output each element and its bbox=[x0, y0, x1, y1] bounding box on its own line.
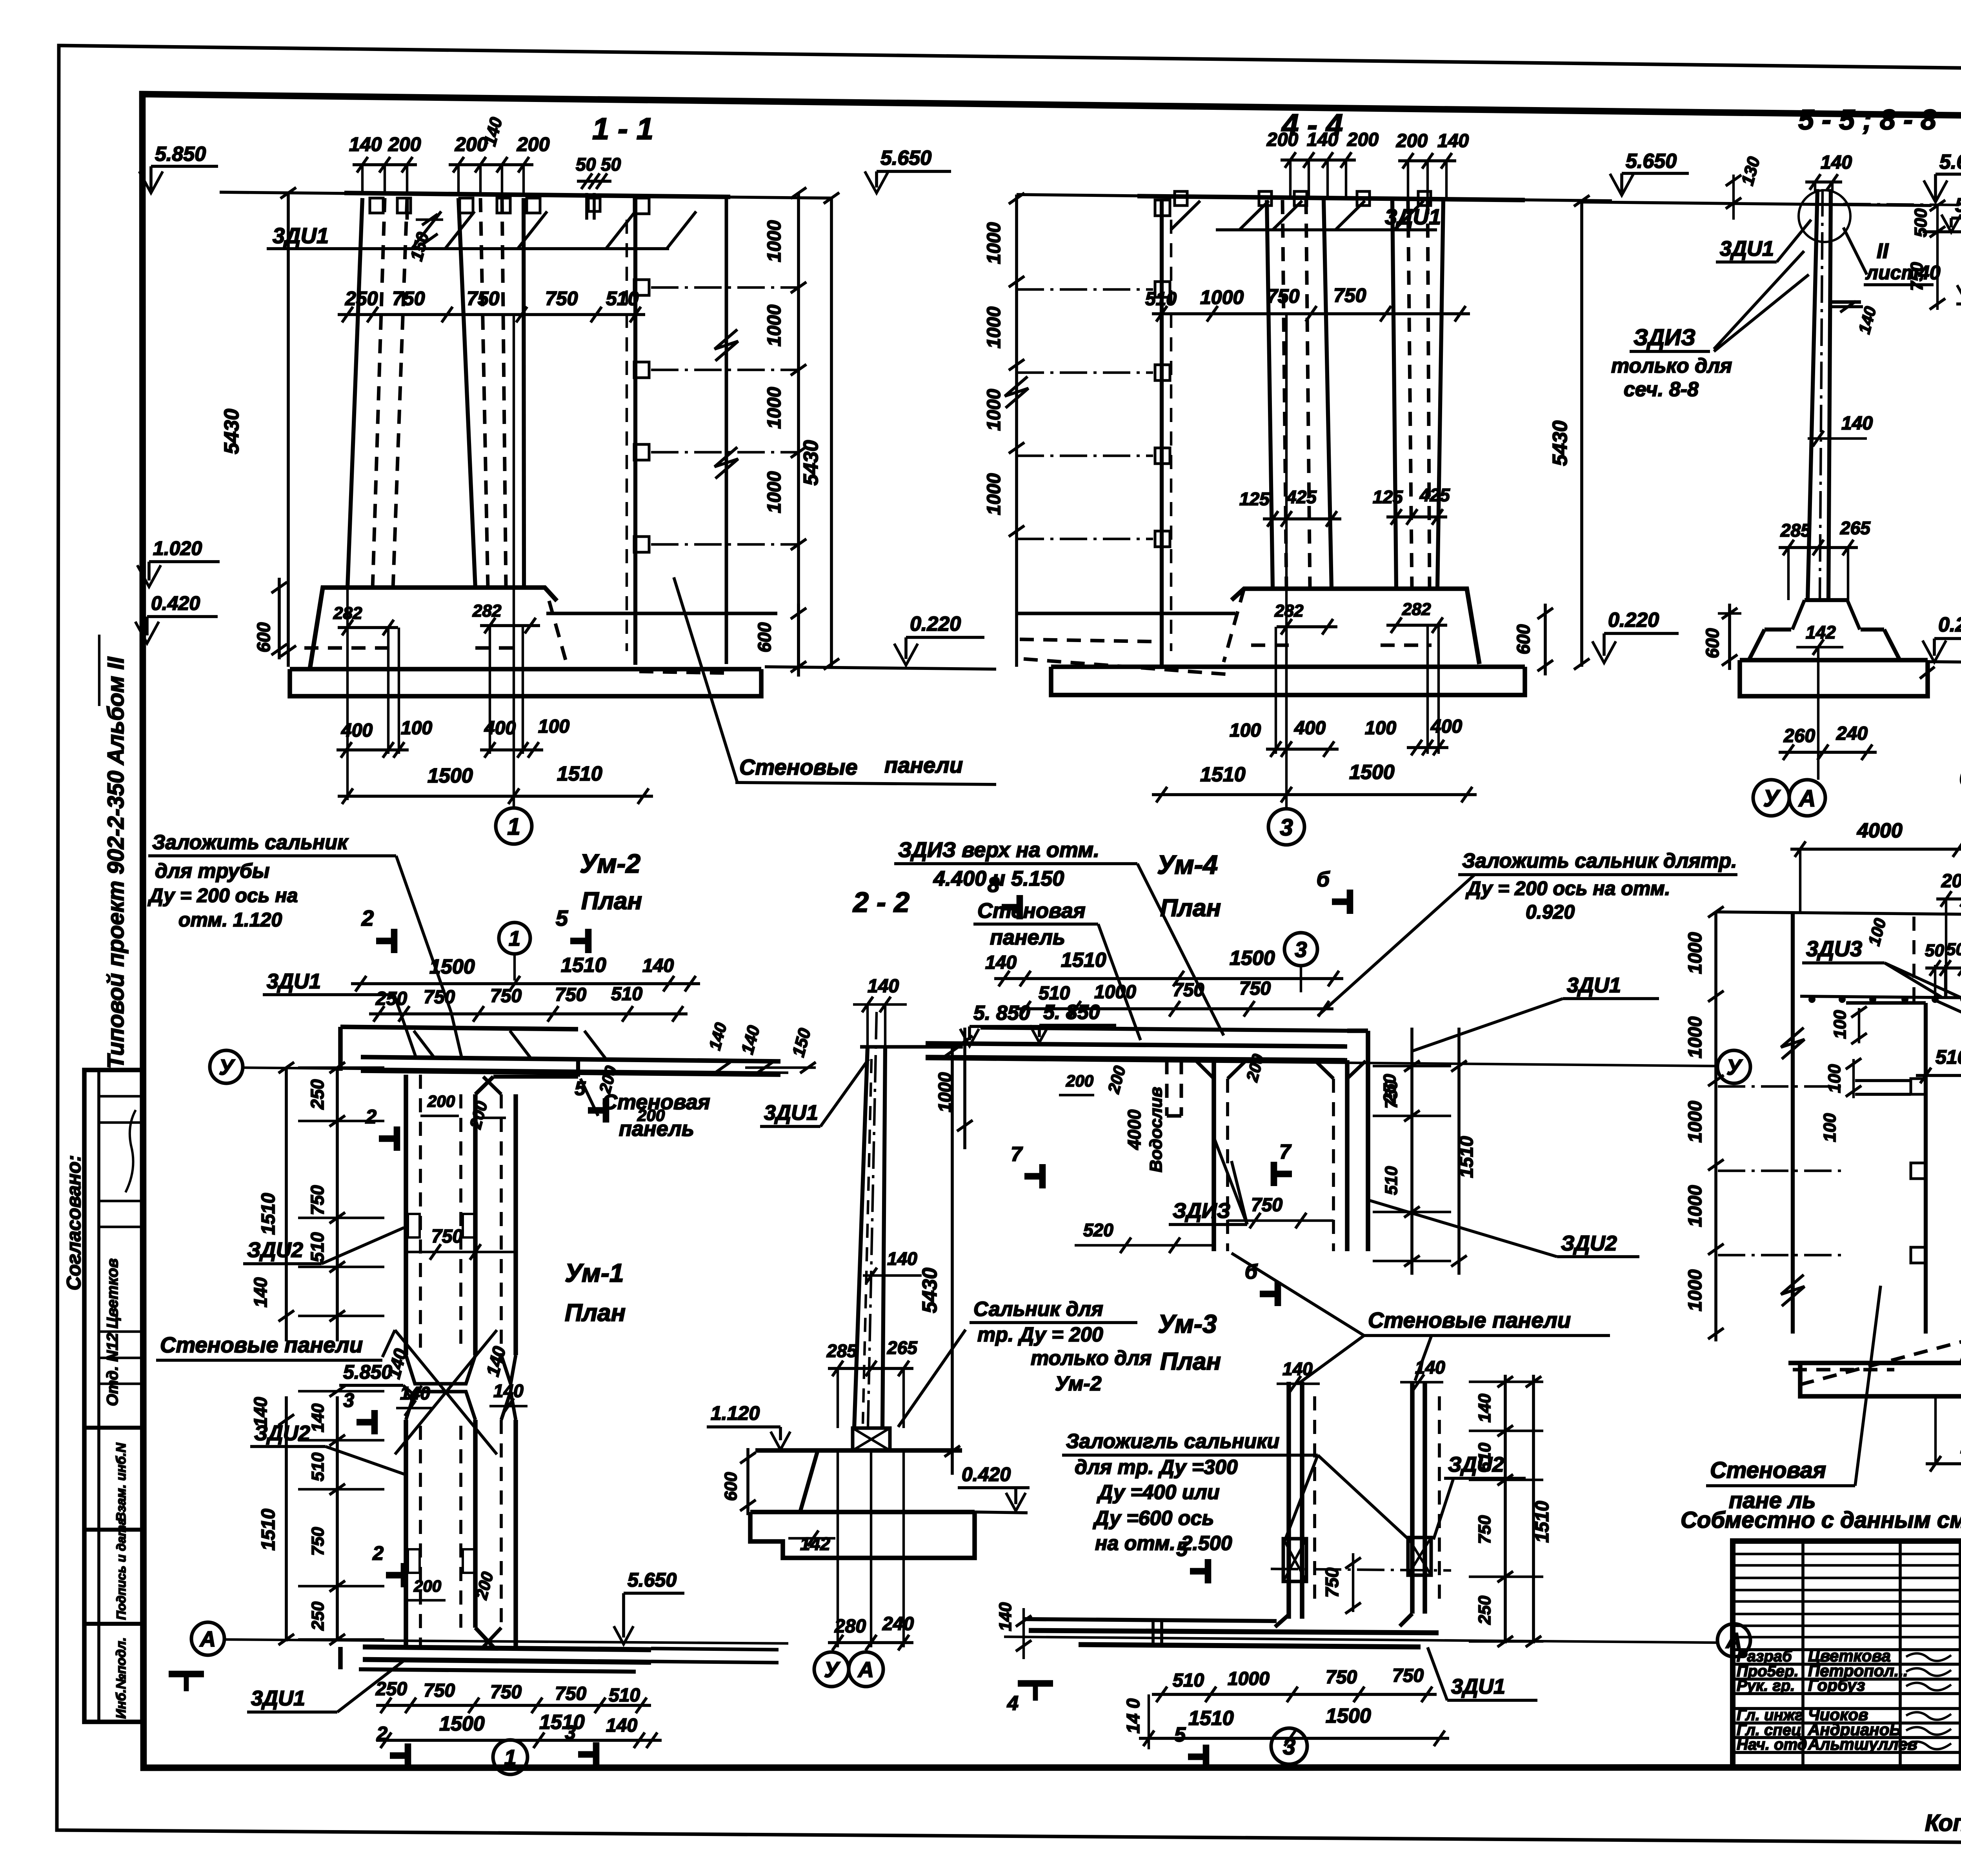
svg-text:5.650: 5.650 bbox=[1626, 150, 1677, 173]
svg-text:250: 250 bbox=[375, 1679, 407, 1699]
anchor plates section 1-1 bbox=[370, 198, 383, 213]
signature box column bbox=[84, 1070, 142, 1722]
plate connector 7-7 bbox=[1855, 1079, 1911, 1082]
section mark 5 um3 top bbox=[1205, 1559, 1212, 1583]
svg-text:142: 142 bbox=[1806, 622, 1836, 642]
svg-text:1000: 1000 bbox=[764, 220, 785, 262]
step line 5-5 bbox=[1830, 300, 1861, 304]
svg-text:1000: 1000 bbox=[984, 222, 1004, 264]
svg-text:1000: 1000 bbox=[935, 1072, 955, 1112]
svg-text:510: 510 bbox=[307, 1232, 327, 1262]
svg-text:5430: 5430 bbox=[220, 409, 243, 454]
tie line bbox=[651, 543, 799, 546]
title block left table bbox=[1733, 1553, 1961, 1555]
svg-text:50: 50 bbox=[1946, 940, 1961, 959]
svg-text:200: 200 bbox=[1347, 129, 1379, 150]
um3 band joint bbox=[1151, 1621, 1155, 1646]
svg-text:1: 1 bbox=[504, 1745, 516, 1770]
panel outer line 7-7 bbox=[1791, 912, 1795, 1334]
plan um3 wall A lines bbox=[1286, 1382, 1291, 1619]
axis У um4 bbox=[1717, 1050, 1750, 1083]
level line 0.220 bbox=[546, 612, 777, 615]
svg-text:750: 750 bbox=[308, 1527, 327, 1556]
axis line 3 bbox=[1285, 314, 1288, 808]
svg-text:У: У bbox=[1763, 785, 1781, 812]
svg-text:600: 600 bbox=[1513, 624, 1534, 654]
svg-text:1.020: 1.020 bbox=[153, 537, 202, 559]
panel plates 7-7 bbox=[1911, 1079, 1926, 1094]
svg-text:600: 600 bbox=[253, 622, 274, 652]
um4 left dim chain bbox=[963, 1028, 966, 1149]
svg-text:б - б: б - б bbox=[1959, 762, 1961, 792]
left dim line 1000s 4-4 bbox=[1015, 195, 1018, 667]
svg-text:3: 3 bbox=[1280, 814, 1293, 841]
svg-text:Стеновая: Стеновая bbox=[977, 899, 1086, 923]
svg-text:50: 50 bbox=[601, 154, 621, 175]
axis А um1 bbox=[191, 1622, 224, 1655]
svg-text:ЗДU2: ЗДU2 bbox=[254, 1421, 310, 1445]
svg-text:750: 750 bbox=[1475, 1515, 1494, 1544]
svg-text:3: 3 bbox=[1295, 937, 1307, 962]
svg-text:750: 750 bbox=[1326, 1667, 1357, 1688]
um3 salnik axis line bbox=[1271, 1569, 1451, 1570]
svg-text:510: 510 bbox=[611, 984, 642, 1004]
svg-text:только для: только для bbox=[1611, 355, 1732, 377]
svg-text:140: 140 bbox=[1821, 152, 1852, 173]
column lines 2-2 bbox=[854, 1047, 868, 1428]
svg-text:Ду = 200 ось на: Ду = 200 ось на bbox=[147, 884, 298, 906]
svg-text:4000: 4000 bbox=[1857, 819, 1903, 842]
footing block 2-2 bbox=[755, 1448, 962, 1453]
um3 salnik leaders bbox=[1284, 1455, 1318, 1541]
svg-text:750: 750 bbox=[1392, 1665, 1424, 1686]
bolts 50x50 bbox=[585, 193, 588, 220]
um4 right dim chain bbox=[1410, 1028, 1413, 1275]
svg-text:5.150: 5.150 bbox=[1955, 194, 1961, 216]
svg-text:5 - 5 ; 8 - 8: 5 - 5 ; 8 - 8 bbox=[1798, 104, 1936, 136]
svg-text:1.120: 1.120 bbox=[711, 1402, 760, 1424]
hidden excavation dashes 7-7 bbox=[1793, 1368, 1894, 1372]
panel inner line 7-7 bbox=[1924, 1003, 1928, 1334]
um3 crossing leaders bbox=[1298, 1336, 1364, 1384]
footing dashed lines bbox=[304, 646, 392, 650]
svg-text:3ДU1: 3ДU1 bbox=[1451, 1675, 1505, 1698]
wall panel plates bbox=[634, 280, 649, 295]
dim line 5430 right bbox=[830, 198, 833, 667]
svg-text:Отд. N12 Цветков: Отд. N12 Цветков bbox=[104, 1258, 121, 1406]
svg-text:5.850: 5.850 bbox=[155, 143, 206, 166]
svg-text:5.650: 5.650 bbox=[880, 147, 931, 169]
um4 водослив opening bbox=[1165, 1060, 1169, 1116]
panel top plate bbox=[634, 198, 649, 214]
svg-text:ЗДU2: ЗДU2 bbox=[1561, 1232, 1617, 1255]
svg-text:250: 250 bbox=[308, 1601, 327, 1631]
svg-text:1000: 1000 bbox=[984, 389, 1004, 431]
footing dashes 4-4 bbox=[1251, 644, 1298, 647]
um2 plate symbols bbox=[408, 1214, 420, 1237]
svg-text:1510: 1510 bbox=[561, 954, 606, 977]
svg-text:100: 100 bbox=[1825, 1064, 1844, 1093]
wall panel line bbox=[633, 198, 637, 665]
svg-text:3ДU1: 3ДU1 bbox=[764, 1101, 818, 1125]
svg-text:140: 140 bbox=[985, 952, 1017, 973]
svg-text:750: 750 bbox=[467, 287, 500, 309]
wall top level line bbox=[220, 192, 831, 198]
svg-text:140: 140 bbox=[996, 1602, 1015, 1631]
svg-text:2: 2 bbox=[372, 1542, 384, 1564]
left dim line 7-7 bbox=[1714, 912, 1717, 1341]
axis circle 3 4-4 bbox=[1268, 809, 1304, 845]
svg-text:750: 750 bbox=[1382, 1080, 1401, 1109]
svg-text:1500: 1500 bbox=[427, 764, 473, 787]
axis line 5-5 bbox=[1817, 647, 1819, 780]
svg-text:панель: панель bbox=[990, 926, 1065, 949]
svg-text:400: 400 bbox=[484, 718, 516, 739]
svg-text:600: 600 bbox=[721, 1472, 740, 1501]
salnik box 2-2 bbox=[853, 1428, 890, 1450]
svg-text:750: 750 bbox=[490, 986, 522, 1006]
svg-text:250: 250 bbox=[1475, 1596, 1494, 1625]
svg-text:3ДU1: 3ДU1 bbox=[273, 223, 329, 248]
um4 chamfers bbox=[1195, 1060, 1214, 1079]
svg-text:600: 600 bbox=[754, 622, 775, 652]
svg-text:1510: 1510 bbox=[1200, 763, 1246, 786]
svg-text:100: 100 bbox=[1230, 720, 1261, 741]
svg-text:750: 750 bbox=[1322, 1567, 1342, 1598]
svg-text:5: 5 bbox=[1176, 1538, 1188, 1561]
break mark 4-4 left bbox=[1005, 377, 1028, 408]
wall A lines bbox=[347, 198, 362, 588]
svg-text:1000: 1000 bbox=[1685, 932, 1706, 974]
svg-text:200: 200 bbox=[517, 133, 550, 155]
footing 5-5 slopes bbox=[1749, 630, 1765, 660]
svg-text:Стеновая: Стеновая bbox=[602, 1090, 710, 1114]
svg-text:3: 3 bbox=[565, 1721, 576, 1743]
svg-text:140: 140 bbox=[887, 1248, 917, 1269]
svg-text:200: 200 bbox=[388, 133, 421, 155]
svg-text:100: 100 bbox=[1830, 1010, 1850, 1039]
section mark 8 um4 bbox=[1017, 895, 1023, 919]
svg-text:200: 200 bbox=[427, 1092, 455, 1110]
svg-text:1510: 1510 bbox=[1188, 1707, 1234, 1730]
svg-text:200: 200 bbox=[413, 1577, 441, 1595]
svg-text:1510: 1510 bbox=[557, 762, 602, 785]
svg-text:100: 100 bbox=[1365, 718, 1396, 739]
section mark 2 um1 bbox=[401, 1563, 407, 1587]
title block outer bbox=[1733, 1541, 1961, 1767]
svg-text:14 0: 14 0 bbox=[1123, 1698, 1143, 1734]
axis circles У А 2-2 bbox=[814, 1652, 849, 1687]
dots line 7-7 bbox=[1800, 996, 1961, 998]
um2 wall bottom taper bbox=[406, 1355, 475, 1384]
footing trapezoid 4-4 bbox=[1232, 589, 1479, 664]
level line 2-2 bbox=[860, 1045, 963, 1049]
svg-text:510: 510 bbox=[1936, 1046, 1961, 1068]
axis center line 1 bbox=[513, 315, 515, 807]
svg-text:Ду =600 ось: Ду =600 ось bbox=[1093, 1507, 1214, 1530]
svg-text:510: 510 bbox=[1145, 289, 1177, 309]
svg-text:1510: 1510 bbox=[1061, 949, 1106, 972]
svg-text:1000: 1000 bbox=[764, 304, 785, 346]
axis circle 3 um3 bbox=[1271, 1728, 1307, 1764]
svg-text:750: 750 bbox=[555, 1683, 586, 1704]
svg-text:750: 750 bbox=[490, 1682, 522, 1703]
svg-text:5430: 5430 bbox=[919, 1268, 941, 1313]
svg-text:240: 240 bbox=[882, 1614, 914, 1634]
svg-text:140: 140 bbox=[606, 1715, 637, 1736]
svg-text:5: 5 bbox=[1174, 1723, 1186, 1746]
section mark 5 right plan bbox=[603, 1098, 609, 1123]
svg-text:750: 750 bbox=[1173, 980, 1204, 1001]
top level line 4-4 bbox=[1017, 195, 1612, 201]
section marks bottom um1 bbox=[405, 1743, 411, 1768]
svg-text:200: 200 bbox=[1396, 131, 1428, 151]
svg-text:7: 7 bbox=[1011, 1143, 1023, 1166]
svg-text:1510: 1510 bbox=[1532, 1501, 1553, 1543]
svg-text:Водослив: Водослив bbox=[1146, 1087, 1166, 1172]
um4 right dim chain outer bbox=[1457, 1028, 1461, 1275]
signature squiggles bbox=[1906, 1653, 1951, 1661]
section mark 3 um1 right bbox=[371, 1410, 378, 1434]
svg-text:1510: 1510 bbox=[539, 1711, 585, 1734]
svg-text:1: 1 bbox=[509, 927, 520, 950]
svg-text:2: 2 bbox=[361, 906, 374, 930]
left dim line 5430 bbox=[287, 193, 290, 667]
svg-text:100: 100 bbox=[401, 718, 432, 739]
svg-text:2: 2 bbox=[376, 1723, 387, 1745]
svg-text:140: 140 bbox=[1475, 1394, 1494, 1423]
svg-text:282: 282 bbox=[1402, 600, 1431, 619]
base slab 2-2 bbox=[750, 1510, 975, 1514]
svg-text:ЗДИЗ: ЗДИЗ bbox=[1173, 1199, 1230, 1223]
svg-text:8: 8 bbox=[988, 873, 999, 897]
svg-text:на отм. 2.500: на отм. 2.500 bbox=[1095, 1532, 1232, 1555]
svg-text:1000: 1000 bbox=[764, 387, 785, 429]
tie line bbox=[651, 369, 799, 371]
svg-text:б: б bbox=[1317, 868, 1330, 891]
svg-text:3ДU3: 3ДU3 bbox=[1806, 936, 1862, 961]
svg-text:50: 50 bbox=[576, 154, 596, 175]
axis circle 1 bbox=[496, 808, 532, 844]
svg-text:1500: 1500 bbox=[1230, 947, 1275, 970]
svg-text:240: 240 bbox=[1836, 723, 1868, 744]
svg-text:4000: 4000 bbox=[1124, 1109, 1144, 1150]
svg-text:Типовой проект 902-2-350: Типовой проект 902-2-350 bbox=[103, 771, 129, 1069]
svg-text:140: 140 bbox=[642, 955, 674, 976]
svg-text:5.850: 5.850 bbox=[343, 1361, 392, 1383]
um1 wall top taper bbox=[406, 1392, 475, 1420]
monolith slashes um2 bbox=[414, 1031, 435, 1059]
svg-text:II: II bbox=[1877, 239, 1889, 263]
wall top line 4-4 bbox=[1137, 196, 1525, 200]
svg-text:отм. 1.120: отм. 1.120 bbox=[178, 909, 282, 931]
svg-text:140: 140 bbox=[349, 133, 382, 155]
svg-text:сеч. 8-8: сеч. 8-8 bbox=[1624, 378, 1699, 401]
svg-text:7: 7 bbox=[1279, 1141, 1292, 1163]
section mark б um4 bbox=[1347, 890, 1353, 914]
svg-text:282: 282 bbox=[1274, 601, 1304, 620]
svg-text:3ДU1: 3ДU1 bbox=[251, 1687, 305, 1710]
svg-text:У: У bbox=[1726, 1055, 1743, 1079]
svg-text:Ум-2: Ум-2 bbox=[1055, 1372, 1102, 1395]
section marks 7 um4 bbox=[1039, 1164, 1046, 1188]
svg-text:Ум-1: Ум-1 bbox=[565, 1258, 624, 1287]
svg-text:У: У bbox=[824, 1657, 840, 1682]
svg-text:Стеновые панели: Стеновые панели bbox=[1368, 1308, 1571, 1332]
svg-text:Инб.№подл.: Инб.№подл. bbox=[114, 1637, 129, 1719]
svg-text:140: 140 bbox=[868, 976, 899, 997]
footing 5-5 upper bbox=[1765, 628, 1791, 631]
um3 axis А bbox=[1717, 1624, 1750, 1657]
anchor plates top 4-4 bbox=[1175, 191, 1187, 206]
svg-text:1000: 1000 bbox=[984, 306, 1004, 348]
svg-text:только для: только для bbox=[1031, 1347, 1151, 1370]
plan um3 wall B lines bbox=[1410, 1382, 1415, 1614]
svg-text:Подпись и дата: Подпись и дата bbox=[114, 1518, 128, 1620]
um1 plate symbols bbox=[408, 1549, 420, 1573]
um3 right dim chain outer bbox=[1532, 1375, 1535, 1643]
svg-text:0.220: 0.220 bbox=[910, 613, 961, 635]
svg-text:1500: 1500 bbox=[1349, 761, 1395, 784]
svg-text:1000: 1000 bbox=[1685, 1101, 1706, 1143]
svg-text:У: У bbox=[219, 1055, 235, 1079]
um1 left dim chains bbox=[285, 1396, 288, 1641]
svg-text:А: А bbox=[1798, 785, 1815, 812]
svg-text:ЗДИЗ верх на отм.: ЗДИЗ верх на отм. bbox=[898, 838, 1099, 862]
base slab 5-5 bbox=[1740, 660, 1928, 696]
svg-text:Нач. отд: Нач. отд bbox=[1737, 1736, 1807, 1753]
svg-text:5430: 5430 bbox=[1549, 420, 1572, 466]
svg-text:1000: 1000 bbox=[1200, 286, 1244, 308]
svg-text:140: 140 bbox=[250, 1277, 271, 1307]
svg-text:3ДU1: 3ДU1 bbox=[267, 970, 321, 993]
svg-text:3ДU1: 3ДU1 bbox=[1720, 237, 1774, 260]
footing 5-5 inner slopes bbox=[1792, 600, 1805, 630]
um3 chamfers bbox=[1275, 1615, 1289, 1627]
svg-text:400: 400 bbox=[341, 720, 373, 741]
tie line bbox=[651, 451, 799, 453]
svg-text:1510: 1510 bbox=[258, 1508, 279, 1550]
svg-text:1 - 1: 1 - 1 bbox=[592, 111, 653, 146]
svg-text:282: 282 bbox=[472, 601, 502, 620]
break marks bbox=[715, 329, 738, 361]
svg-text:1500: 1500 bbox=[1326, 1705, 1371, 1727]
svg-text:750: 750 bbox=[555, 984, 586, 1005]
svg-text:Ум-3: Ум-3 bbox=[1158, 1309, 1217, 1338]
svg-text:1000: 1000 bbox=[1685, 1269, 1706, 1311]
svg-text:250: 250 bbox=[307, 1079, 327, 1110]
svg-text:0.220: 0.220 bbox=[1608, 609, 1659, 631]
svg-text:285: 285 bbox=[1780, 520, 1811, 540]
level line 0.420 2-2 bbox=[975, 1512, 1028, 1513]
plan um2 vertical walls bbox=[404, 1075, 408, 1355]
svg-text:425: 425 bbox=[1419, 485, 1450, 505]
hidden slab dashes 4-4 bbox=[1020, 639, 1161, 642]
extension lines 4-4 bbox=[1285, 627, 1288, 754]
svg-text:500: 500 bbox=[1911, 208, 1930, 237]
svg-text:Заложигль сальники: Заложигль сальники bbox=[1066, 1430, 1279, 1453]
column lines 5-5 bbox=[1808, 189, 1817, 600]
svg-text:2: 2 bbox=[365, 1106, 377, 1128]
svg-text:2 - 2: 2 - 2 bbox=[852, 887, 910, 918]
svg-text:Стеновая: Стеновая bbox=[1710, 1457, 1826, 1483]
svg-text:для тр. Ду =300: для тр. Ду =300 bbox=[1075, 1456, 1238, 1479]
plan um2 wall band bbox=[361, 1057, 780, 1061]
svg-text:План: План bbox=[1160, 895, 1221, 922]
svg-text:140: 140 bbox=[1841, 413, 1873, 434]
svg-text:400: 400 bbox=[1294, 718, 1326, 739]
svg-text:5. 850: 5. 850 bbox=[1043, 1001, 1100, 1024]
tie lines 7-7 bbox=[1718, 1085, 1843, 1088]
column circle detail 5-5 bbox=[1799, 190, 1850, 242]
svg-text:Рук. гр.: Рук. гр. bbox=[1737, 1677, 1795, 1694]
svg-text:для трубы: для трубы bbox=[155, 860, 269, 883]
footing trapezoid 1-1 bbox=[310, 588, 557, 669]
svg-text:Горбуз: Горбуз bbox=[1808, 1676, 1865, 1694]
svg-text:панели: панели bbox=[884, 753, 963, 777]
svg-text:А: А bbox=[857, 1657, 874, 1682]
svg-text:50: 50 bbox=[1925, 941, 1944, 960]
svg-text:Альбом II: Альбом II bbox=[103, 656, 129, 766]
svg-text:Заложить сальник длятр.: Заложить сальник длятр. bbox=[1462, 850, 1737, 872]
svg-text:200: 200 bbox=[1066, 1072, 1093, 1090]
svg-text:125: 125 bbox=[1373, 487, 1403, 507]
wall panel plates 4-4 bbox=[1155, 200, 1170, 216]
level 600 line left 4-4 bbox=[1017, 612, 1235, 615]
section mark 5 um3 bottom bbox=[1203, 1745, 1210, 1769]
um2 right wall pair bbox=[500, 1094, 503, 1355]
svg-text:1000: 1000 bbox=[1685, 1016, 1706, 1058]
section mark 5 top bbox=[585, 929, 592, 953]
svg-text:265: 265 bbox=[887, 1337, 918, 1358]
svg-text:1000: 1000 bbox=[1228, 1669, 1270, 1689]
svg-text:Заложить сальник: Заложить сальник bbox=[152, 831, 349, 854]
plan um2 top wall outer line bbox=[340, 1027, 578, 1029]
svg-text:750: 750 bbox=[1907, 262, 1926, 291]
svg-text:265: 265 bbox=[1840, 518, 1871, 538]
wall C lines 4-4 bbox=[1267, 200, 1273, 588]
svg-text:Альтшуллев: Альтшуллев bbox=[1808, 1735, 1917, 1753]
svg-text:140: 140 bbox=[1437, 131, 1469, 151]
svg-text:1510: 1510 bbox=[1456, 1136, 1477, 1178]
crossing leaders bbox=[395, 1330, 497, 1454]
svg-text:750: 750 bbox=[1251, 1195, 1282, 1215]
level 0.220 line 5-5 bbox=[1927, 662, 1961, 663]
wall top line bbox=[344, 193, 730, 197]
base slab 4-4 bbox=[1051, 667, 1525, 695]
base slab 1-1 bbox=[290, 669, 761, 696]
svg-text:А: А bbox=[199, 1627, 216, 1651]
axis circles У А 5-5 bbox=[1753, 780, 1789, 816]
svg-text:Ду =400 или: Ду =400 или bbox=[1097, 1481, 1220, 1504]
axis circle 1 plan um2 bbox=[499, 923, 530, 954]
svg-text:План: План bbox=[565, 1299, 626, 1326]
svg-text:750: 750 bbox=[1333, 284, 1366, 306]
svg-text:280: 280 bbox=[834, 1616, 866, 1637]
svg-text:1000: 1000 bbox=[984, 473, 1004, 515]
svg-text:1500: 1500 bbox=[439, 1712, 485, 1735]
svg-text:140: 140 bbox=[308, 1403, 327, 1432]
svg-text:Стеновые панели: Стеновые панели bbox=[160, 1332, 363, 1357]
svg-text:3: 3 bbox=[343, 1389, 354, 1411]
svg-text:Согласовано:: Согласовано: bbox=[63, 1155, 85, 1290]
svg-text:750: 750 bbox=[431, 1226, 463, 1247]
svg-text:5.650: 5.650 bbox=[1939, 151, 1961, 173]
wall B lines bbox=[458, 198, 475, 588]
um3 salnik boxes bbox=[1283, 1539, 1306, 1581]
svg-text:750: 750 bbox=[424, 1680, 455, 1701]
svg-text:3ДU1: 3ДU1 bbox=[1567, 973, 1621, 997]
